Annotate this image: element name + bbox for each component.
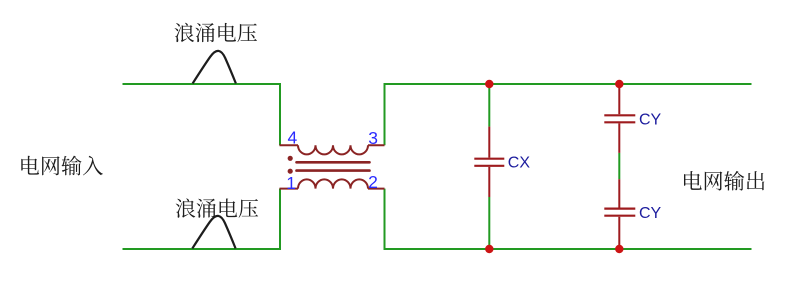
label mains input 电网输入 bbox=[21, 156, 103, 176]
capacitor CY2 plates bbox=[604, 208, 635, 210]
choke L1 pin 1 stub bbox=[280, 188, 299, 190]
wire CX bottom lead bbox=[488, 197, 490, 249]
label surge voltage bottom 浪涌电压 bbox=[176, 198, 258, 217]
choke L1 pin 3 stub bbox=[368, 144, 385, 146]
junction bottom CX bbox=[485, 245, 493, 253]
label surge voltage top 浪涌电压 bbox=[174, 23, 256, 42]
choke polarity dot top bbox=[288, 156, 293, 161]
svg-text:CX: CX bbox=[508, 155, 531, 172]
capacitor CX leads bbox=[488, 127, 490, 158]
svg-text:CY: CY bbox=[639, 205, 662, 222]
capacitor CY1 leads bbox=[618, 84, 620, 114]
svg-text:CY: CY bbox=[639, 112, 662, 129]
choke polarity dot bottom bbox=[288, 169, 293, 174]
wire CX top lead bbox=[488, 84, 490, 127]
choke L1 top winding bbox=[298, 145, 368, 154]
choke L1 bottom winding bbox=[298, 179, 368, 188]
svg-text:2: 2 bbox=[368, 172, 378, 192]
label mains output 电网输出 bbox=[684, 171, 764, 191]
wire top-left rail L bbox=[123, 84, 281, 145]
wire CY midpoint bbox=[618, 153, 620, 179]
junction top CX bbox=[485, 80, 493, 88]
capacitor CY1 plates bbox=[604, 114, 635, 116]
capacitor CY2 leads bbox=[618, 179, 620, 207]
svg-text:4: 4 bbox=[288, 127, 298, 147]
choke L1 pin 4 stub bbox=[280, 144, 299, 146]
capacitor CX plates bbox=[474, 158, 504, 160]
wire top-right rail L bbox=[385, 84, 752, 145]
wire bottom-left rail N bbox=[123, 189, 281, 249]
svg-text:3: 3 bbox=[368, 128, 378, 148]
junction bottom CY bbox=[615, 245, 623, 253]
choke L1 core bars bbox=[297, 162, 370, 170]
surge pulse top bbox=[193, 51, 236, 84]
choke L1 pin 2 stub bbox=[368, 188, 385, 190]
junction top CY bbox=[615, 80, 623, 88]
wire bottom-right rail N bbox=[385, 189, 752, 249]
svg-text:1: 1 bbox=[286, 173, 296, 193]
surge pulse bottom bbox=[192, 216, 235, 249]
